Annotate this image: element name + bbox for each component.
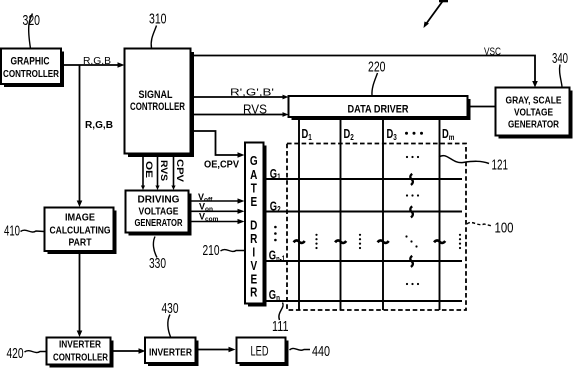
svg-text:340: 340 (552, 50, 568, 67)
break mark on Gn-1 (410, 256, 413, 267)
block IMAGE CALCULATING PART (410) (45, 208, 117, 255)
svg-text:121: 121 (492, 157, 509, 174)
svg-text:CONTROLLER: CONTROLLER (130, 101, 185, 113)
svg-text:R: R (250, 233, 257, 246)
wire RVS (signal->driving voltage gen) (155, 156, 159, 190)
label 320 (23, 12, 41, 49)
svg-text:IMAGE: IMAGE (65, 212, 95, 224)
block INVERTER (430) (145, 338, 199, 367)
label 310 (149, 11, 167, 49)
svg-text:430: 430 (162, 300, 179, 317)
svg-text:420: 420 (7, 345, 24, 362)
block GATE DRIVER (210) (245, 143, 267, 307)
svg-text:410: 410 (4, 223, 20, 240)
data line D2 (340, 120, 342, 310)
block DRIVING VOLTAGE GENERATOR (330) (126, 191, 192, 236)
svg-text:VSC: VSC (484, 46, 501, 58)
block GRAY SCALE VOLTAGE GENERATOR (340) (496, 88, 573, 139)
svg-text:I: I (252, 247, 255, 260)
gate line Gn (263, 300, 462, 302)
svg-text:RVS: RVS (159, 160, 169, 181)
svg-text:E: E (250, 274, 257, 287)
wire inverter -> LED (196, 347, 236, 353)
label 111 with leader (272, 303, 289, 336)
svg-text:VOLTAGE: VOLTAGE (139, 206, 179, 218)
svg-text:R,G,B: R,G,B (83, 56, 111, 67)
svg-text:SIGNAL: SIGNAL (139, 89, 173, 101)
svg-text:PART: PART (69, 237, 92, 249)
dots row middle: between D1-D2 (315, 234, 317, 249)
wire CPV (signal->driving voltage gen) (171, 156, 175, 190)
svg-text:T: T (251, 183, 257, 196)
svg-text:440: 440 (312, 343, 330, 360)
dots col middle: between G1-G2 (406, 194, 419, 196)
svg-text:330: 330 (149, 255, 166, 272)
svg-text:R,G,B: R,G,B (85, 120, 113, 131)
label 420 (7, 345, 47, 362)
svg-text:GRAY, SCALE: GRAY, SCALE (506, 95, 562, 107)
svg-text:A: A (250, 169, 257, 182)
svg-text:INVERTER: INVERTER (149, 347, 192, 359)
svg-text:CALCULATING: CALCULATING (50, 225, 111, 237)
svg-text:GRAPHIC: GRAPHIC (11, 56, 50, 68)
pixel array dashed box 100/121 (287, 144, 466, 311)
svg-text:220: 220 (368, 59, 386, 76)
label dots between D3 and Dm (405, 132, 423, 135)
break mark on Dm (434, 240, 445, 243)
label 210 (203, 242, 245, 259)
svg-text:111: 111 (272, 318, 289, 335)
wire OE,CPV (signal->gate driver) (192, 131, 245, 158)
wire R,G,B vertical branch (77, 65, 83, 207)
label 330 (149, 237, 166, 273)
label 340 (552, 50, 568, 87)
data line D3 (382, 120, 384, 310)
wire data driver -> gray scale gen (468, 106, 496, 108)
svg-text:100: 100 (495, 220, 514, 237)
block LED (440) (237, 338, 289, 367)
block DATA DRIVER (220) (289, 96, 471, 120)
label dots between G2 and Gn-1 (274, 226, 277, 242)
svg-text:OE,CPV: OE,CPV (204, 160, 239, 171)
break mark on D3 (378, 240, 389, 243)
break mark on D2 (335, 240, 346, 243)
wire VSC (signal->gray scale gen) (192, 56, 538, 88)
wire Vcom (dvg->gate driver) (191, 219, 245, 224)
diagonal dots center (405, 235, 417, 247)
svg-text:VOLTAGE: VOLTAGE (514, 107, 553, 119)
gate line Gn-1 (263, 260, 462, 262)
wire Voff (dvg->gate driver) (191, 198, 245, 203)
wire R',G',B' (signal->data driver) (192, 95, 289, 100)
break mark on D1 (294, 240, 305, 243)
wire inverter controller -> inverter (111, 348, 146, 354)
svg-text:RVS: RVS (243, 103, 267, 117)
svg-text:R',G',B': R',G',B' (230, 88, 274, 99)
dots row middle: right of Dm (459, 234, 461, 249)
svg-text:210: 210 (203, 242, 220, 259)
data line D1 (298, 120, 300, 310)
dots col middle: between Gn-1 and Gn (406, 283, 419, 285)
data line Dm (439, 120, 441, 310)
label 410 (4, 223, 44, 240)
svg-text:CPV: CPV (175, 159, 185, 182)
label 430 (162, 300, 179, 338)
svg-text:LED: LED (251, 343, 269, 359)
dots col middle: above G1 (406, 156, 419, 158)
svg-text:GENERATOR: GENERATOR (135, 217, 183, 229)
svg-text:310: 310 (149, 11, 167, 28)
svg-text:V: V (250, 260, 257, 273)
wire RVS (signal->data driver) (192, 112, 289, 117)
svg-text:R: R (250, 287, 257, 300)
svg-text:E: E (250, 196, 257, 209)
svg-text:DATA DRIVER: DATA DRIVER (348, 104, 409, 116)
svg-text:CONTROLLER: CONTROLLER (3, 68, 59, 80)
wire OE (signal->driving voltage gen) (141, 156, 145, 190)
svg-text:GENERATOR: GENERATOR (508, 119, 559, 131)
svg-text:D: D (250, 220, 257, 233)
dots row middle: between D2-D3 (359, 234, 361, 249)
block SIGNAL CONTROLLER (310) (125, 49, 195, 158)
break mark on G1 (410, 174, 413, 185)
wire Von (dvg->gate driver) (191, 209, 245, 214)
svg-text:CONTROLLER: CONTROLLER (53, 352, 108, 364)
svg-text:G: G (250, 155, 258, 168)
wire image calc -> inverter controller (77, 251, 83, 337)
block INVERTER CONTROLLER (420) (47, 338, 114, 368)
gate line G1 (263, 178, 462, 180)
top-right diagonal arrow (424, 0, 449, 28)
svg-text:DRIVING: DRIVING (138, 194, 180, 206)
label 220 (368, 59, 386, 96)
svg-text:OE: OE (144, 161, 154, 178)
wire R,G,B horizontal (graphic->signal) (61, 62, 125, 68)
label 121 with wavy leader (439, 156, 508, 174)
label 100 with dashed wavy leader (467, 220, 514, 237)
svg-text:INVERTER: INVERTER (59, 339, 101, 351)
label 440 (290, 343, 331, 360)
break mark on G2 (410, 206, 413, 217)
block GRAPHIC CONTROLLER (320) (1, 49, 64, 88)
gate line G2 (263, 211, 462, 213)
